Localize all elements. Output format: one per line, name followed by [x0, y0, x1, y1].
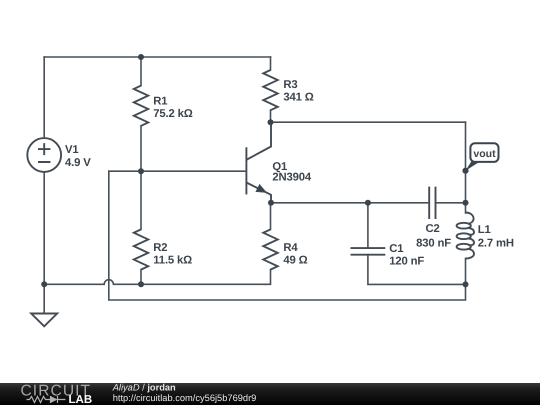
wire R3 top lead — [270, 57, 272, 70]
resistor R3 — [263, 70, 277, 110]
wire R1 bottom lead — [140, 126, 142, 171]
voltage source V1 — [27, 138, 61, 172]
node tank bottom — [463, 281, 469, 287]
node ground left — [41, 281, 47, 287]
ground — [31, 314, 57, 327]
inductor L1 — [457, 213, 474, 259]
resistor R4 — [263, 229, 277, 269]
footer bar — [0, 383, 540, 405]
node R2 bottom — [138, 281, 144, 287]
wire R4 top lead — [270, 203, 272, 230]
wire right rail upper — [465, 122, 467, 203]
svg-text:http://circuitlab.com/cy56j5b7: http://circuitlab.com/cy56j5b769dr9 — [113, 393, 257, 403]
wire emitter row right of C2 — [436, 202, 466, 204]
wire R4 bottom lead — [265, 270, 271, 285]
node C1 tap — [365, 200, 371, 206]
wire ground run with hop — [44, 280, 265, 285]
wire R1 top lead — [140, 57, 142, 86]
node tank top — [463, 200, 469, 206]
wire C1 bottom lead — [368, 255, 466, 285]
node top rail R1 — [138, 54, 144, 60]
node base — [138, 168, 144, 174]
wire feedback return — [109, 171, 466, 300]
node collector — [268, 119, 274, 125]
wire C1 top lead — [367, 203, 369, 248]
wire V1 bottom lead — [43, 172, 45, 313]
logo schematic squiggle — [27, 396, 66, 403]
wire L1 top lead — [465, 203, 467, 213]
wire R2 top lead — [140, 171, 142, 229]
capacitor C1 — [351, 248, 386, 255]
flag vout — [466, 143, 499, 170]
wire left rail V1 top lead — [43, 57, 45, 138]
node vout attach — [462, 168, 468, 174]
wire base — [109, 170, 246, 172]
wire R3 bottom lead — [270, 110, 272, 122]
svg-text:AliyaD / jordan: AliyaD / jordan — [112, 382, 176, 392]
wire emitter row left of C2 — [271, 202, 429, 204]
transistor Q1 — [246, 122, 271, 203]
node emitter — [268, 200, 274, 206]
wire L1 bottom lead — [465, 259, 467, 285]
wire collector row — [271, 121, 466, 123]
svg-text:LAB: LAB — [69, 394, 93, 405]
resistor R2 — [134, 229, 148, 269]
wire top rail — [44, 56, 270, 58]
resistor R1 — [134, 86, 148, 126]
capacitor C2 — [429, 187, 435, 219]
wire R2 bottom lead — [140, 270, 142, 285]
